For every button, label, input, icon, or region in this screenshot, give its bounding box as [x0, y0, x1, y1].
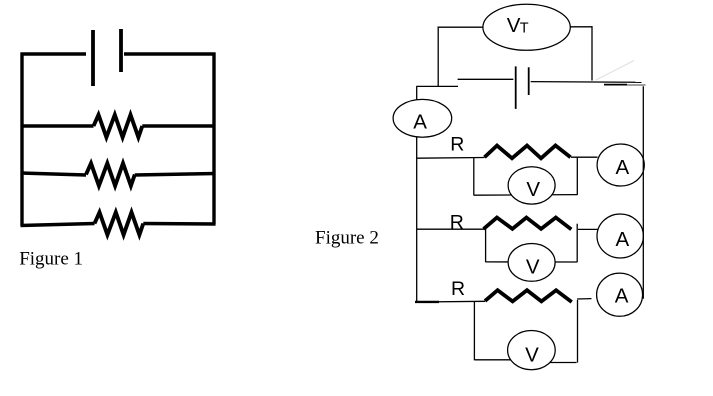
wire: fig1 row2 right	[135, 174, 216, 176]
wire: VT right vertical drop	[591, 26, 593, 80]
svg-text:A: A	[616, 228, 630, 251]
svg-text:Figure 1: Figure 1	[19, 248, 83, 269]
wire: branch 3 left	[417, 300, 485, 303]
wire: faint stray diagonal near top right corner	[596, 61, 634, 81]
wire: left rail below ammeter down to branch 3	[416, 137, 418, 302]
wire: VT left vertical drop	[437, 27, 439, 87]
voltmeter VT ellipse	[483, 4, 570, 50]
svg-text:A: A	[413, 111, 427, 134]
wire: branch 2 resistor to ammeter A2	[578, 228, 598, 230]
voltmeter loop 3: right vertical	[577, 300, 579, 363]
svg-text:T: T	[520, 20, 529, 36]
resistor R row3	[95, 212, 144, 235]
wire: fig1 bottom wire right	[143, 222, 215, 226]
svg-text:R: R	[451, 278, 465, 300]
svg-text:R: R	[450, 134, 464, 156]
wire: fig1 right vertical rail	[212, 53, 215, 225]
voltmeter loop 2: bottom wire	[486, 261, 578, 263]
ammeter A1 circle	[597, 144, 644, 186]
svg-text:R: R	[450, 212, 464, 234]
wire: branch 1 resistor to ammeter A1	[571, 156, 598, 158]
ammeter A left ellipse	[393, 99, 452, 137]
svg-text:V: V	[526, 178, 540, 201]
wire: branch 1 left	[417, 157, 485, 160]
resistor R row2	[86, 163, 135, 186]
svg-text:V: V	[507, 14, 521, 37]
wire: branch 2 left	[417, 228, 485, 230]
wire: fig1 top wire right of battery	[124, 52, 216, 55]
svg-text:V: V	[525, 344, 539, 367]
resistor R2 zigzag	[484, 218, 572, 230]
battery B2 long plate	[515, 66, 517, 109]
label: Figure 1 caption	[19, 248, 83, 269]
wire: battery left lead	[458, 78, 514, 80]
wire: faint segment to right rail corner	[627, 84, 646, 86]
voltmeter loop 1: bottom wire	[474, 194, 578, 197]
ammeter A3 circle	[597, 273, 643, 316]
ammeter A2 circle	[597, 214, 643, 258]
wire: branch 3 overdrawn bold stub	[415, 301, 439, 303]
voltmeter V1 ellipse	[508, 167, 555, 204]
svg-text:A: A	[616, 156, 630, 179]
wire: fig1 row2 left	[21, 173, 87, 175]
voltmeter V2 ellipse	[508, 244, 555, 282]
voltmeter loop 3: left vertical	[473, 302, 475, 360]
resistor R row1	[94, 115, 143, 138]
wire: VT left horizontal	[438, 26, 484, 28]
voltmeter loop 1: right vertical	[576, 157, 578, 195]
wire: fig1 row1 right	[142, 124, 215, 127]
voltmeter loop 3: bottom wire left	[474, 359, 520, 361]
resistor R1 zigzag	[485, 146, 571, 159]
battery B2 short plate	[528, 67, 530, 95]
wire: top-left connector to ammeter rail	[416, 85, 458, 87]
wire: left rail above ammeter	[416, 86, 418, 100]
wire: battery right lead	[531, 81, 642, 84]
wire: VT right horizontal	[570, 26, 592, 28]
battery B1 short plate	[119, 29, 123, 72]
wire: fig1 top wire left of battery	[21, 52, 87, 55]
wire: fig1 row1 left	[21, 124, 94, 127]
svg-text:Figure 2: Figure 2	[315, 227, 379, 248]
voltmeter loop 1: left vertical	[473, 158, 475, 196]
wire: right vertical rail	[642, 86, 644, 298]
voltmeter loop 3: bottom wire right	[545, 362, 577, 364]
svg-text:V: V	[526, 256, 540, 279]
voltmeter loop 2: left vertical	[485, 229, 487, 262]
wire: branch 3 resistor to ammeter A3	[577, 298, 592, 300]
battery B1 long plate	[91, 30, 95, 86]
wire: stray overdrawn segment near right corner	[604, 84, 627, 86]
wire: fig1 bottom wire left	[21, 224, 95, 226]
voltmeter V3 ellipse	[508, 331, 556, 370]
voltmeter loop 2: right vertical	[576, 224, 578, 263]
resistor R3 zigzag	[485, 290, 572, 302]
wire: fig1 left vertical rail	[20, 53, 23, 227]
svg-text:A: A	[615, 285, 629, 308]
